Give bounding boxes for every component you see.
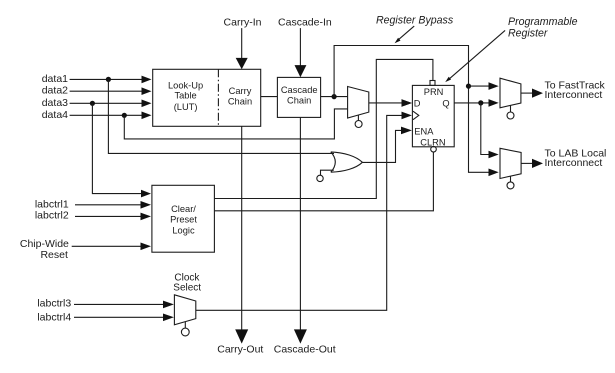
wire data3 branch to Clear/Preset Logic [92, 103, 141, 193]
component clock select mux [174, 295, 195, 325]
wire carry chain to cascade chain [261, 96, 278, 98]
node data3 branch junction [90, 101, 95, 106]
pin D arrowhead [402, 99, 412, 107]
svg-text:Register: Register [508, 28, 548, 40]
block LUT / Carry Chain [153, 69, 261, 126]
svg-text:data3: data3 [42, 97, 68, 109]
svg-text:Cascade: Cascade [281, 85, 318, 95]
component clock mux bubble [184, 322, 186, 328]
wire clock line to register [196, 115, 402, 310]
svg-text:Carry: Carry [229, 86, 252, 96]
svg-text:Q: Q [442, 98, 449, 108]
svg-text:Clear/: Clear/ [171, 204, 196, 214]
component LAB mux bubble [510, 176, 512, 182]
component FastTrack mux bubble [510, 105, 512, 112]
wire labctrl2 [75, 215, 141, 217]
svg-text:D: D [414, 98, 421, 108]
wire data4 [70, 114, 142, 116]
wire clear/preset to PRN [214, 59, 433, 198]
wire register bypass path [334, 46, 489, 173]
wire LAB output arrow [521, 162, 532, 164]
wire data3 [70, 102, 142, 104]
component CLRN bubble [431, 146, 437, 152]
wire bypass to FastTrack mux input 1 [469, 85, 490, 87]
block Cascade Chain [277, 77, 320, 117]
component FastTrack mux [500, 78, 521, 108]
svg-text:ENA: ENA [414, 127, 434, 137]
divider LUT/carry dash-dot [217, 69, 219, 126]
wire data1 [70, 78, 142, 80]
svg-text:CLRN: CLRN [420, 138, 445, 148]
svg-text:Select: Select [173, 283, 201, 294]
svg-text:Carry-In: Carry-In [224, 16, 262, 28]
svg-text:Look-Up: Look-Up [168, 81, 203, 91]
wire labctrl4 [74, 316, 164, 318]
wire labctrl3 [74, 303, 164, 305]
wire FastTrack output arrow [521, 92, 533, 94]
wire mux output to D input [369, 102, 402, 104]
svg-text:labctrl2: labctrl2 [35, 209, 69, 221]
svg-text:Cascade-In: Cascade-In [278, 16, 332, 28]
wire carry-out [241, 126, 243, 330]
node cascade output junction [332, 94, 337, 99]
component bypass mux bubble [357, 115, 359, 120]
pin clock chevron [413, 111, 419, 120]
svg-text:labctrl3: labctrl3 [37, 297, 71, 309]
wire data1 branch to OR gate input [108, 79, 334, 153]
svg-text:Table: Table [174, 91, 196, 101]
svg-text:Reset: Reset [40, 249, 68, 261]
component LAB local mux [500, 148, 521, 178]
component register bypass mux [348, 87, 369, 119]
wire Q to LAB mux input 1 [481, 103, 489, 155]
wire cascade-in arrow [299, 28, 301, 66]
wire OR bubble input stub [321, 170, 334, 175]
svg-text:data4: data4 [42, 109, 68, 121]
svg-text:Chain: Chain [228, 97, 252, 107]
annotation arrow programmable register [450, 30, 506, 78]
wire carry-in arrow [241, 28, 243, 58]
svg-text:PRN: PRN [424, 87, 444, 97]
node Q junction [478, 100, 483, 105]
component OR gate [331, 152, 363, 172]
svg-text:Interconnect: Interconnect [545, 89, 603, 101]
wire Q output [454, 102, 489, 104]
wire labctrl1 [75, 204, 141, 206]
svg-text:Logic: Logic [172, 225, 195, 235]
svg-text:Programmable: Programmable [508, 16, 578, 28]
wire cascade-out [299, 117, 301, 330]
node data1 branch junction [106, 77, 111, 82]
svg-text:(LUT): (LUT) [174, 102, 198, 112]
component PRN input square [430, 81, 435, 86]
wire OR output to ENA [362, 130, 401, 162]
wire clear/preset to CLRN [215, 152, 434, 211]
node data4 branch junction [122, 113, 127, 118]
annotation arrow register bypass [398, 26, 414, 40]
block Clear/Preset Logic [152, 185, 215, 252]
component register DFF [412, 85, 454, 146]
svg-text:Preset: Preset [170, 215, 197, 225]
svg-text:Interconnect: Interconnect [545, 157, 603, 169]
wire chip-wide reset [72, 245, 141, 247]
component OR input bubble [317, 175, 323, 181]
svg-text:Carry-Out: Carry-Out [217, 343, 263, 355]
svg-text:labctrl4: labctrl4 [37, 311, 71, 323]
svg-text:Chain: Chain [287, 96, 311, 106]
pin clock arrowhead [402, 112, 412, 120]
wire cascade chain output to bypass mux [321, 96, 348, 98]
svg-text:Register Bypass: Register Bypass [376, 15, 454, 27]
svg-text:data1: data1 [42, 73, 68, 85]
svg-text:Cascade-Out: Cascade-Out [274, 343, 336, 355]
wire data4 branch to bypass mux input 2 [124, 109, 347, 139]
svg-text:data2: data2 [42, 85, 68, 97]
wire data2 [70, 90, 142, 92]
node bypass to FastTrack mux junction [466, 84, 471, 89]
